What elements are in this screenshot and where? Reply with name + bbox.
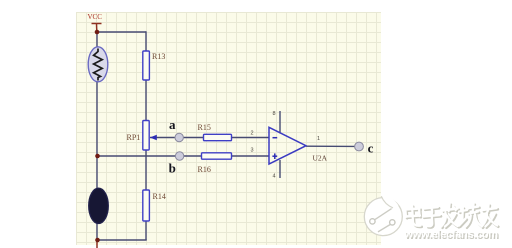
svg-text:1: 1	[317, 136, 320, 142]
svg-text:R14: R14	[153, 192, 166, 201]
svg-text:www.elecfans.com: www.elecfans.com	[404, 229, 499, 241]
svg-text:a: a	[169, 117, 176, 132]
svg-text:VCC: VCC	[88, 13, 103, 21]
svg-text:R13: R13	[152, 52, 165, 61]
svg-text:4: 4	[273, 174, 276, 180]
svg-text:R16: R16	[198, 165, 211, 174]
svg-text:8: 8	[273, 111, 276, 117]
svg-text:3: 3	[251, 147, 254, 153]
svg-text:c: c	[368, 140, 374, 155]
svg-text:2: 2	[251, 131, 254, 137]
svg-text:R15: R15	[198, 123, 211, 132]
svg-text:b: b	[169, 161, 176, 176]
svg-text:RP1: RP1	[127, 133, 141, 142]
svg-text:U2A: U2A	[313, 154, 328, 163]
